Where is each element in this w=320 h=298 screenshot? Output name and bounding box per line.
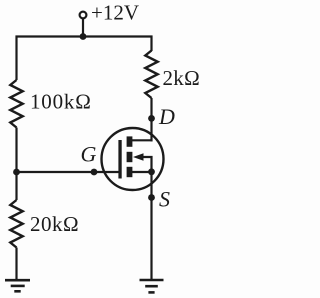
wire source <box>150 172 152 280</box>
wire left rail lower <box>15 172 17 200</box>
wire left rail middle <box>15 128 17 173</box>
mosfet gate bar <box>118 140 121 179</box>
node S dot <box>148 194 155 201</box>
node source junction dot <box>148 168 155 175</box>
svg-text:2kΩ: 2kΩ <box>163 66 201 90</box>
resistor 20k zigzag <box>10 200 22 248</box>
mosfet body arrow <box>133 153 144 161</box>
mosfet arrow tail wire <box>143 157 152 172</box>
wire right rail upper <box>150 36 152 52</box>
wire supply stub <box>82 19 84 37</box>
gate terminal dot <box>91 169 98 176</box>
ground right <box>140 280 164 292</box>
node D dot <box>148 115 155 122</box>
mosfet channel bar top <box>127 136 133 146</box>
wire left ground lead <box>15 248 17 281</box>
mosfet drain connector <box>130 139 153 141</box>
junction dot top rail <box>80 33 87 40</box>
svg-text:20kΩ: 20kΩ <box>30 212 79 236</box>
svg-text:100kΩ: 100kΩ <box>30 90 92 114</box>
wire gate horizontal <box>17 171 121 173</box>
wire left rail upper <box>15 36 17 81</box>
resistor 2k zigzag <box>145 51 157 99</box>
svg-text:S: S <box>159 187 170 212</box>
svg-text:+12V: +12V <box>91 1 139 25</box>
svg-text:G: G <box>81 142 97 167</box>
mosfet circle <box>102 128 164 190</box>
supply terminal +12V <box>80 12 87 19</box>
wire drain <box>150 98 152 141</box>
resistor 100k zigzag <box>10 80 22 128</box>
node gate junction dot <box>13 169 20 176</box>
ground left <box>5 280 30 291</box>
mosfet channel bar bottom <box>127 167 133 177</box>
svg-text:D: D <box>158 104 175 129</box>
mosfet source connector <box>130 171 152 173</box>
mosfet channel bar middle <box>127 152 133 162</box>
wire top rail <box>16 35 153 37</box>
